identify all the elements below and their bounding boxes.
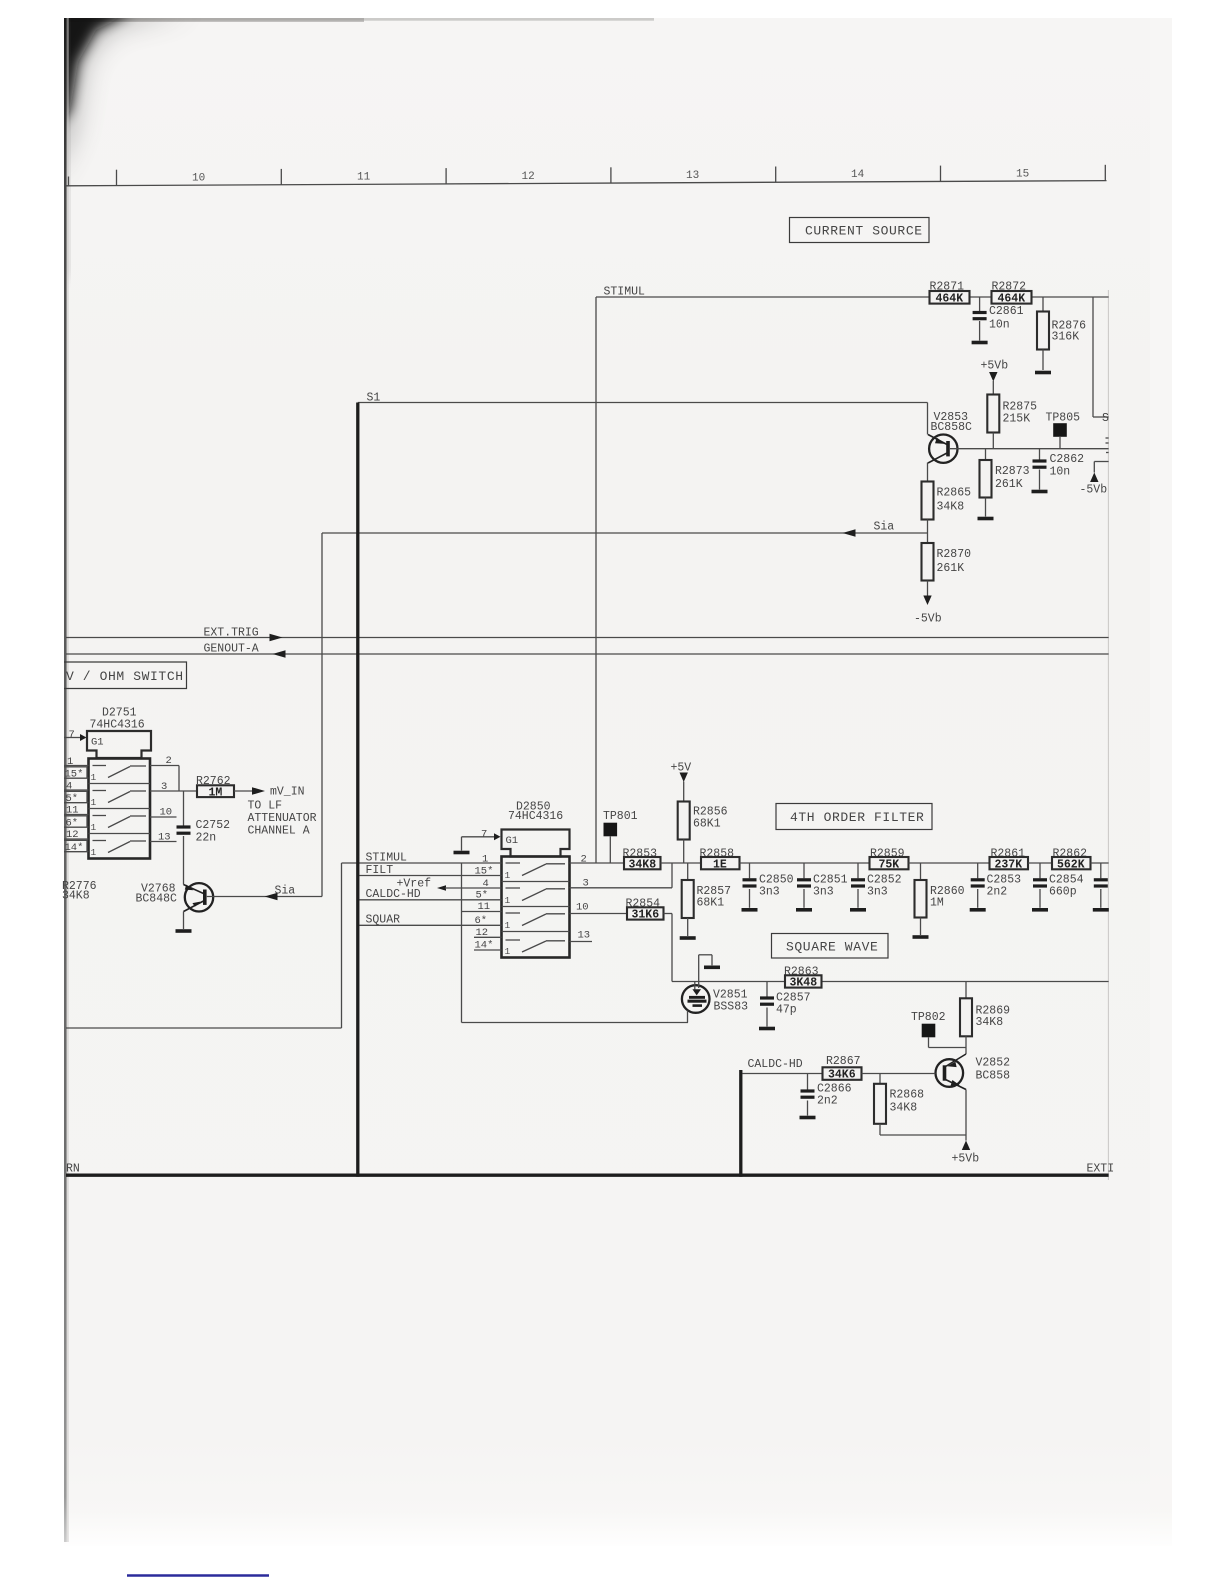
capacitor C2855 (cut at edge) <box>1094 863 1108 908</box>
svg-text:R2870: R2870 <box>937 548 972 561</box>
resistor R2865 <box>922 482 972 544</box>
ground C2850 <box>742 908 758 912</box>
svg-text:R2873: R2873 <box>995 465 1030 478</box>
D2850 pin 13 <box>570 930 593 942</box>
svg-text:31K6: 31K6 <box>632 909 660 922</box>
testpoint TP802 <box>911 1011 966 1048</box>
resistor R2873 <box>980 449 1030 517</box>
link underline (blue) <box>127 1574 269 1577</box>
D2751 pin 4 <box>64 781 89 793</box>
D2751 pin 1 <box>64 756 89 768</box>
resistor R2853 <box>623 848 702 872</box>
svg-text:34K8: 34K8 <box>976 1016 1004 1029</box>
ground C2853 <box>970 908 986 912</box>
svg-text:215K: 215K <box>1003 413 1031 426</box>
svg-text:261K: 261K <box>937 562 965 575</box>
svg-text:SQUAR: SQUAR <box>366 914 401 927</box>
svg-text:C2752: C2752 <box>196 819 231 832</box>
D2751 switch section 1 <box>91 766 147 784</box>
node STIMUL (D2850 pin 1) <box>342 852 502 866</box>
svg-text:TP802: TP802 <box>911 1011 946 1024</box>
svg-text:10: 10 <box>192 173 205 185</box>
node Sia (upper) <box>322 521 928 537</box>
resistor R2856 <box>678 802 728 864</box>
node CALDC-HD (D2850 pin 5) <box>360 888 502 902</box>
capacitor C2861 <box>973 297 1024 341</box>
node GENOUT-A <box>66 643 1109 658</box>
svg-text:68K1: 68K1 <box>693 818 721 831</box>
svg-text:1: 1 <box>482 854 488 866</box>
resistor R2867 <box>823 1055 936 1082</box>
ground C2857 <box>759 1027 775 1031</box>
ground R2873 <box>978 517 994 521</box>
wire STIMUL horizontal <box>596 296 1109 298</box>
wire square-wave output <box>672 981 1109 983</box>
svg-text:-5Vb: -5Vb <box>1080 484 1108 497</box>
top-left dark scan corner <box>50 0 654 278</box>
wire right branch down from STIMUL <box>1093 297 1109 425</box>
D2751 pin 13 <box>150 832 177 844</box>
capacitor C2857 <box>760 982 811 1027</box>
svg-text:34K6: 34K6 <box>828 1069 856 1082</box>
svg-text:261K: 261K <box>995 478 1023 491</box>
resistor R2762 <box>196 775 253 800</box>
D2751 switch section 3 <box>91 816 147 834</box>
resistor R2857 <box>682 863 731 936</box>
ruler numbers <box>192 168 1029 184</box>
ground C2852 <box>850 908 866 912</box>
svg-text:13: 13 <box>578 930 591 942</box>
ground C2861 <box>972 341 988 345</box>
svg-text:R2867: R2867 <box>826 1055 861 1068</box>
D2850 pin 14 <box>474 940 502 952</box>
label CURRENT SOURCE <box>790 218 930 243</box>
label V / OHM SWITCH <box>64 662 187 689</box>
svg-text:1E: 1E <box>713 859 727 872</box>
svg-text:BC848C: BC848C <box>136 893 178 906</box>
svg-text:mV_IN: mV_IN <box>270 786 305 799</box>
node STIMUL label <box>604 286 646 299</box>
svg-text:12: 12 <box>522 171 535 183</box>
svg-text:R2868: R2868 <box>890 1089 925 1102</box>
svg-text:V / OHM SWITCH: V / OHM SWITCH <box>66 669 184 684</box>
svg-text:C2862: C2862 <box>1050 453 1085 466</box>
svg-text:3n3: 3n3 <box>759 886 780 899</box>
svg-text:BC858C: BC858C <box>931 421 973 434</box>
ground R2860 <box>913 935 929 939</box>
power -5Vb (right edge) <box>1080 462 1109 497</box>
resistor R2863 <box>784 966 822 990</box>
D2751 pin 6 <box>64 816 89 830</box>
D2751 pin 12 <box>64 829 89 841</box>
D2850 pin 12 <box>474 927 502 939</box>
svg-text:+5Vb: +5Vb <box>981 360 1009 373</box>
wire S1 horizontal <box>358 403 928 435</box>
svg-text:7: 7 <box>481 829 487 841</box>
svg-text:G1: G1 <box>506 835 519 847</box>
resistor R2776 (cut at page edge) <box>62 880 97 903</box>
svg-text:+5Vb: +5Vb <box>952 1153 980 1166</box>
svg-text:CALDC-HD: CALDC-HD <box>748 1058 803 1071</box>
svg-text:TP801: TP801 <box>603 810 638 823</box>
svg-text:1M: 1M <box>209 787 223 800</box>
svg-text:BSS83: BSS83 <box>714 1001 749 1014</box>
svg-text:Sia: Sia <box>275 885 296 898</box>
svg-text:3n3: 3n3 <box>867 886 888 899</box>
svg-text:R2865: R2865 <box>937 487 972 500</box>
bus S1 vertical <box>356 403 359 1177</box>
power +5V <box>671 762 692 802</box>
svg-text:ATTENUATOR: ATTENUATOR <box>248 812 317 825</box>
ground V2851 gate <box>704 966 720 970</box>
resistor R2870 <box>922 543 972 596</box>
resistor R2876 <box>1037 297 1086 370</box>
svg-text:10n: 10n <box>989 319 1010 332</box>
capacitor C2752 <box>177 791 231 885</box>
resistor R2862 <box>1052 848 1109 872</box>
resistor R2869 <box>960 982 1010 1055</box>
D2751 pin 7 <box>64 729 87 741</box>
svg-text:S: S <box>1102 412 1109 425</box>
IC D2751 74HC4316 <box>87 707 151 859</box>
ground C2862 <box>1032 490 1048 494</box>
capacitor C2852 <box>851 863 902 908</box>
resistor R2861 <box>990 848 1053 872</box>
D2850 pin 10 <box>570 902 628 914</box>
svg-text:BC858: BC858 <box>976 1070 1011 1083</box>
D2850 pin 2 <box>570 854 625 866</box>
svg-text:1: 1 <box>91 797 97 808</box>
svg-text:34K8: 34K8 <box>890 1102 918 1115</box>
svg-text:316K: 316K <box>1052 331 1080 344</box>
D2751 switch section 4 <box>91 841 147 859</box>
node mV_IN <box>252 786 305 799</box>
left page edge dark line <box>64 18 67 1542</box>
svg-text:1M: 1M <box>930 897 944 910</box>
capacitor C2854 <box>1033 863 1084 908</box>
svg-text:TO LF: TO LF <box>248 800 283 813</box>
transistor V2853 <box>928 411 1109 482</box>
node SQUAR (D2850 pin 6) <box>360 914 502 928</box>
capacitor C2862 <box>1033 449 1085 490</box>
capacitor C2866 <box>801 1074 852 1116</box>
wire Sia vertical <box>321 533 323 897</box>
svg-text:464K: 464K <box>936 293 964 306</box>
svg-text:V2852: V2852 <box>976 1057 1011 1070</box>
D2751 pin 10 <box>150 807 177 819</box>
D2751 pin 15 <box>64 767 89 781</box>
svg-text:74HC4316: 74HC4316 <box>90 719 145 732</box>
ground R2857 <box>680 936 696 940</box>
D2850 pin 7 <box>462 829 501 851</box>
bus bottom horizontal <box>66 1174 1109 1177</box>
svg-text:TP805: TP805 <box>1046 412 1081 425</box>
wire STIMUL branch to V2851 source <box>462 863 689 1023</box>
svg-text:464K: 464K <box>998 293 1026 306</box>
IC D2850 74HC4316 <box>502 801 570 958</box>
resistor R2868 <box>874 1074 966 1136</box>
transistor V2851 (MOSFET BSS83) <box>682 955 748 1023</box>
resistor R2860 <box>915 863 965 935</box>
svg-text:15: 15 <box>1016 168 1029 180</box>
D2751 pin 14 <box>64 840 89 854</box>
wire section outline <box>66 863 342 1028</box>
D2751 switch section 2 <box>91 791 147 809</box>
svg-text:34K8: 34K8 <box>629 859 657 872</box>
svg-text:3n3: 3n3 <box>813 886 834 899</box>
svg-text:2n2: 2n2 <box>987 886 1008 899</box>
resistor R2858 <box>700 848 870 872</box>
ruler line <box>66 181 1107 186</box>
D2751 pin 3 <box>150 781 197 793</box>
svg-text:14*: 14* <box>65 842 84 854</box>
capacitor C2853 <box>971 863 1021 908</box>
svg-text:1: 1 <box>91 772 97 783</box>
svg-text:15*: 15* <box>65 769 84 781</box>
svg-text:1: 1 <box>505 946 511 957</box>
svg-text:5*: 5* <box>66 793 79 805</box>
wire CALDC-HD to R2867 <box>743 1073 823 1075</box>
node EXT.TRIG <box>66 627 1109 642</box>
ground D2850 pin 7 <box>454 851 470 855</box>
resistor R2872 <box>992 281 1032 306</box>
resistor R2871 <box>930 281 970 306</box>
svg-text:1: 1 <box>505 870 511 881</box>
svg-text:14: 14 <box>851 169 865 181</box>
svg-text:237K: 237K <box>995 859 1023 872</box>
ground C2851 <box>796 908 812 912</box>
capacitor C2850 <box>743 863 794 908</box>
svg-text:34K8: 34K8 <box>62 890 90 903</box>
svg-text:10: 10 <box>576 902 589 914</box>
power -5Vb (below R2870) <box>914 596 942 626</box>
resistor R2854 <box>626 898 673 982</box>
D2850 pin 11 <box>462 901 502 913</box>
svg-text:68K1: 68K1 <box>697 897 725 910</box>
ruler ticks <box>69 165 1106 186</box>
ground C2855 <box>1093 908 1109 912</box>
svg-text:2n2: 2n2 <box>817 1095 838 1108</box>
D2751 pin 11 <box>64 805 89 817</box>
bus CALDC-HD vertical <box>741 1058 803 1177</box>
svg-text:1: 1 <box>505 895 511 906</box>
svg-text:1: 1 <box>505 920 511 931</box>
svg-text:C2861: C2861 <box>989 305 1024 318</box>
resistor R2875 <box>987 395 1037 449</box>
svg-text:1: 1 <box>91 822 97 833</box>
svg-text:1: 1 <box>91 847 97 858</box>
testpoint TP801 <box>603 810 638 863</box>
D2850 switch section 3 <box>505 913 566 931</box>
ground C2854 <box>1032 908 1048 912</box>
ground V2768 <box>176 929 192 933</box>
node RN (cut at edge) <box>66 1163 80 1176</box>
svg-text:CURRENT SOURCE: CURRENT SOURCE <box>805 224 923 239</box>
label SQUARE WAVE <box>772 934 889 959</box>
capacitor C2851 <box>797 863 848 908</box>
svg-text:34K8: 34K8 <box>937 501 965 514</box>
svg-text:13: 13 <box>686 170 699 182</box>
transistor V2768 <box>136 883 323 930</box>
svg-text:6*: 6* <box>66 818 79 830</box>
D2850 switch section 4 <box>505 940 566 957</box>
note TO LF ATTENUATOR CHANNEL A <box>248 800 317 838</box>
svg-text:660p: 660p <box>1049 886 1077 899</box>
testpoint TP805 <box>1046 412 1081 449</box>
D2850 switch section 1 <box>505 863 566 881</box>
power +5Vb (below V2852) <box>952 1141 980 1166</box>
D2850 switch section 2 <box>505 888 566 906</box>
svg-text:10n: 10n <box>1050 466 1071 479</box>
transistor V2852 <box>936 1054 1011 1141</box>
svg-text:G1: G1 <box>91 737 104 749</box>
node Sia (lower) <box>265 885 296 901</box>
svg-text:22n: 22n <box>196 832 217 845</box>
ground C2866 <box>800 1116 816 1120</box>
svg-text:CALDC-HD: CALDC-HD <box>366 888 421 901</box>
svg-text:-5Vb: -5Vb <box>914 613 942 626</box>
svg-text:3K48: 3K48 <box>790 977 818 990</box>
node +Vref (D2850 pin 4) <box>397 878 502 891</box>
svg-text:7: 7 <box>69 729 75 741</box>
svg-text:11: 11 <box>357 172 371 184</box>
svg-text:562K: 562K <box>1057 859 1085 872</box>
label 4TH ORDER FILTER <box>776 804 932 830</box>
ground R2876 <box>1035 371 1051 375</box>
resistor R2859 <box>870 848 990 872</box>
svg-text:2: 2 <box>581 854 587 866</box>
D2850 pin 3 <box>570 863 673 890</box>
svg-text:47p: 47p <box>776 1004 797 1017</box>
D2751 pin 5 <box>64 791 89 805</box>
node S1 label <box>367 392 381 405</box>
node EXTI (cut at edge) <box>1087 1163 1115 1176</box>
node FILT (D2850 pin 15) <box>360 864 502 878</box>
svg-text:Sia: Sia <box>874 521 895 534</box>
D2751 pin 2 <box>150 755 179 791</box>
svg-text:74HC4316: 74HC4316 <box>508 810 563 823</box>
svg-text:CHANNEL A: CHANNEL A <box>248 825 310 838</box>
wire STIMUL vertical to D2850 pin 2 <box>595 297 597 863</box>
cut letters at right edge <box>1106 438 1109 453</box>
power +5Vb <box>981 360 1009 395</box>
svg-text:4TH ORDER FILTER: 4TH ORDER FILTER <box>790 810 924 825</box>
scan cut line right <box>1107 290 1109 1180</box>
svg-text:75K: 75K <box>879 859 900 872</box>
svg-text:SQUARE WAVE: SQUARE WAVE <box>786 940 878 955</box>
